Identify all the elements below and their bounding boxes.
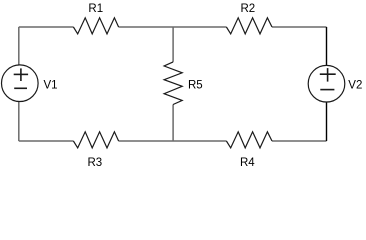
wire middle vertical lower (R5 to node E) [172, 105, 174, 142]
resistor R2 [226, 3, 272, 34]
voltage source V2 [308, 65, 362, 102]
resistor R5 (vertical) [164, 62, 203, 105]
wire bottom horizontal middle segment (R3 to R4 through node E) [119, 140, 227, 142]
wire right vertical lower (V2 minus terminal to node F, black net) [326, 102, 328, 141]
svg-text:R5: R5 [188, 80, 203, 92]
svg-text:R4: R4 [240, 157, 255, 169]
voltage source V1 [2, 65, 58, 102]
resistor R1 [73, 3, 118, 34]
wire bottom horizontal right segment (R4 to node F) [272, 140, 327, 142]
wire bottom horizontal left segment (node D to R3) [19, 140, 74, 142]
resistor R3 [73, 132, 118, 169]
resistor R4 [226, 132, 272, 169]
wire middle vertical upper (node B to R5) [172, 27, 174, 62]
wire right vertical upper (node C to V2 plus terminal, black net) [326, 27, 328, 65]
svg-text:R3: R3 [88, 157, 103, 169]
svg-text:R1: R1 [88, 3, 103, 15]
svg-text:V1: V1 [44, 79, 58, 91]
wire left vertical upper (node A to V1 plus terminal) [18, 27, 20, 65]
wire top horizontal left segment (node A to R1) [19, 26, 74, 28]
svg-text:V2: V2 [348, 80, 362, 92]
wire top horizontal right segment (R2 to node C) [272, 26, 327, 28]
wire left vertical lower (V1 minus terminal to node D) [18, 102, 20, 141]
wire top horizontal middle segment (R1 to R2 through node B) [119, 26, 227, 28]
svg-text:R2: R2 [241, 3, 256, 15]
